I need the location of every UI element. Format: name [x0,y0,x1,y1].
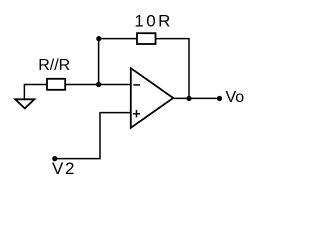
output wire [173,97,219,99]
wire feedback left vertical [99,39,137,85]
op-amp minus sign [133,84,140,86]
svg-text:10R: 10R [134,11,172,30]
op-amp plus sign [133,110,140,117]
wire feedback right segment down to output [156,39,190,99]
op-amp U1 [131,68,173,128]
wire from V2 to op-amp non-inverting input [55,113,131,159]
wire from R//R to op-amp inverting input [65,84,131,86]
terminal V2 [52,156,57,161]
ground [15,99,34,108]
svg-text:Vo: Vo [226,89,245,106]
node dot at feedback top corner [96,36,101,41]
svg-text:R//R: R//R [38,57,70,74]
resistor R//R [47,79,65,90]
node junction at output [186,96,191,101]
terminal Vo [217,96,222,101]
resistor 10R [137,33,156,44]
node junction at inverting input [96,82,101,87]
wire from ground corner to resistor R//R [24,85,47,100]
svg-text:V2: V2 [52,159,76,178]
